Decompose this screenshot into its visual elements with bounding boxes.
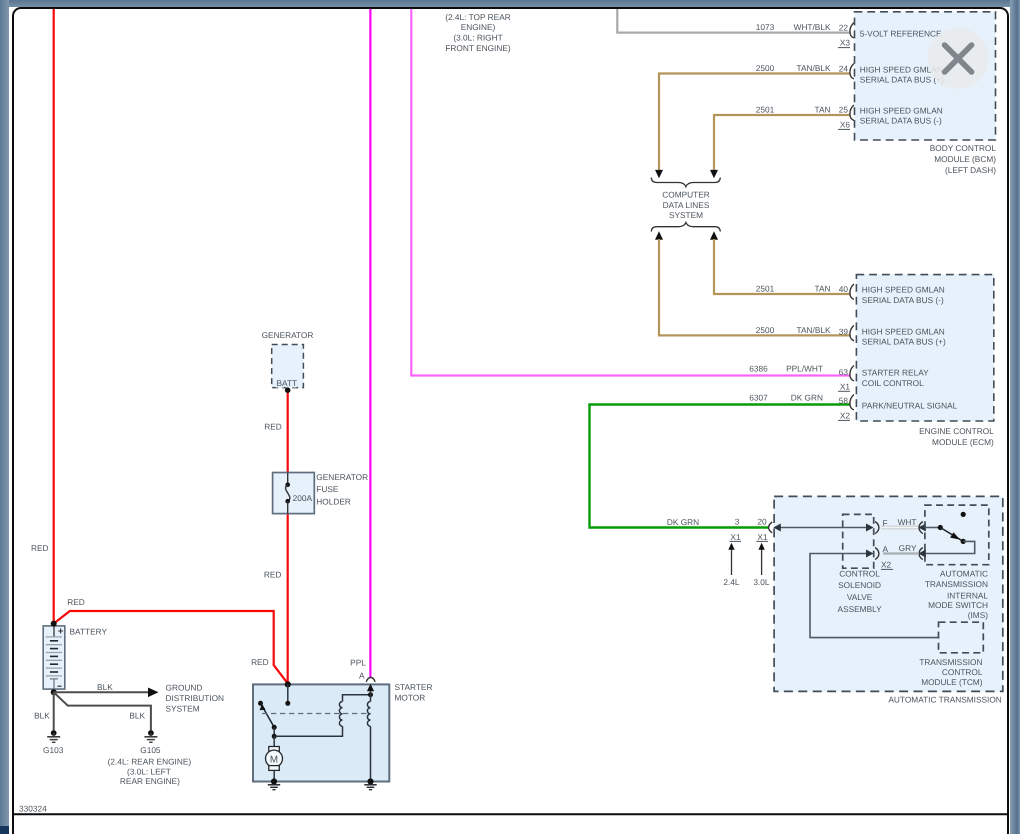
BCM pin labels	[860, 29, 944, 126]
svg-text:63: 63	[839, 367, 849, 377]
viewer chrome: left strip navy end	[0, 826, 9, 834]
svg-text:330324: 330324	[19, 804, 47, 814]
svg-text:CONTROL: CONTROL	[839, 568, 880, 578]
svg-text:CONTROL: CONTROL	[942, 667, 983, 677]
svg-text:24: 24	[839, 63, 849, 73]
battery box	[43, 626, 65, 689]
label CONTROL SOLENOID VALVE ASSEMBLY	[838, 568, 883, 613]
svg-text:TAN: TAN	[815, 283, 831, 293]
wire: junction to pull-in coil	[274, 726, 342, 736]
pin 63 terminal arc	[850, 366, 854, 381]
svg-text:PARK/NEUTRAL SIGNAL: PARK/NEUTRAL SIGNAL	[862, 401, 958, 411]
starter motor M: armature circle	[266, 750, 283, 767]
module CSVA: control solenoid valve assembly box	[843, 514, 874, 568]
svg-text:STARTER: STARTER	[395, 682, 433, 692]
wire: RED fuse holder to starter junction	[287, 513, 289, 683]
battery negative stem	[50, 679, 58, 689]
svg-text:ENGINE CONTROL: ENGINE CONTROL	[919, 426, 994, 436]
pin 39 terminal arc	[850, 325, 854, 340]
svg-text:HIGH SPEED GMLAN: HIGH SPEED GMLAN	[860, 105, 943, 115]
svg-text:X1: X1	[757, 532, 768, 542]
arrow at CSVA A pin (right pointing)	[866, 550, 874, 558]
svg-text:MODULE (BCM): MODULE (BCM)	[934, 154, 996, 164]
svg-text:SERIAL DATA BUS (-): SERIAL DATA BUS (-)	[862, 295, 944, 305]
svg-text:DISTRIBUTION: DISTRIBUTION	[166, 693, 225, 703]
battery plus sign	[58, 629, 63, 634]
svg-text:TAN/BLK: TAN/BLK	[797, 63, 831, 73]
svg-text:40: 40	[839, 284, 849, 294]
svg-text:2.4L: 2.4L	[723, 577, 740, 587]
label GROUND DISTRIBUTION SYSTEM	[166, 683, 225, 714]
wire: IMS switch feed	[925, 527, 940, 529]
arrow: 2501 into data-lines brace	[710, 170, 718, 178]
svg-text:FUSE: FUSE	[316, 484, 339, 494]
svg-text:COMPUTER: COMPUTER	[662, 190, 709, 200]
wire: TAN 2501 to ECM pin 40	[714, 239, 850, 294]
svg-text:BLK: BLK	[34, 711, 50, 721]
svg-text:TRANSMISSION: TRANSMISSION	[925, 579, 988, 589]
svg-text:MODULE (TCM): MODULE (TCM)	[921, 677, 983, 687]
svg-text:ASSEMBLY: ASSEMBLY	[838, 604, 883, 614]
starter solenoid switch contact	[258, 701, 263, 706]
arrow out of IMS (left pointing, A row)	[918, 550, 926, 558]
battery cell plates	[46, 637, 62, 676]
viewer chrome: left blue strip	[0, 0, 9, 826]
wire: gray lead into control solenoid valve assembly (F row)	[780, 527, 867, 529]
viewer chrome: right blue strip	[1010, 0, 1020, 834]
wire: PPL/WHT 6386 starter relay coil control	[411, 9, 850, 376]
IMS switch closed contact	[961, 539, 966, 544]
svg-text:MODE SWITCH: MODE SWITCH	[928, 600, 988, 610]
svg-text:BLK: BLK	[129, 711, 145, 721]
brace: computer data lines (lower)	[651, 223, 720, 232]
arrow: 2500 into data-lines brace	[655, 170, 663, 178]
label G105 and engine notes	[108, 745, 192, 786]
svg-text:PPL: PPL	[350, 658, 366, 668]
module ECM: engine control module box	[856, 275, 993, 421]
svg-text:RED: RED	[251, 657, 269, 667]
svg-text:(LEFT DASH): (LEFT DASH)	[945, 165, 996, 175]
svg-text:3: 3	[735, 517, 740, 527]
wire: GRY lead IMS to CSVA pin A	[883, 552, 919, 554]
IMS switch common contact	[938, 525, 943, 530]
IMS pin terminal arc (F row)	[919, 522, 923, 534]
ground G105	[144, 730, 157, 742]
svg-text:HIGH SPEED GMLAN: HIGH SPEED GMLAN	[862, 326, 945, 336]
svg-text:GROUND: GROUND	[166, 683, 203, 693]
svg-text:2500: 2500	[756, 325, 775, 335]
mechanical link (dashed)	[262, 713, 371, 715]
svg-text:VALVE: VALVE	[847, 592, 873, 602]
svg-text:58: 58	[839, 395, 849, 405]
svg-text:TRANSMISSION: TRANSMISSION	[919, 657, 982, 667]
pin 25 terminal arc	[850, 105, 854, 120]
svg-text:DATA LINES: DATA LINES	[663, 200, 710, 210]
svg-text:X3: X3	[840, 38, 851, 48]
IMS switch open contact	[961, 512, 966, 517]
svg-text:X6: X6	[840, 119, 851, 129]
svg-text:SYSTEM: SYSTEM	[166, 703, 200, 713]
wire: RED battery positive feed (left vertical)	[53, 9, 55, 624]
wire: WHT/BLK 1073 5-volt reference	[617, 9, 850, 33]
viewer chrome: top blue strip	[0, 0, 1020, 7]
svg-text:2501: 2501	[756, 283, 775, 293]
wire: PPL starter solenoid feed (magenta vertical)	[369, 9, 371, 678]
IMS switch arm	[940, 528, 963, 542]
svg-text:BATTERY: BATTERY	[70, 626, 108, 636]
pin 24 terminal arc	[850, 64, 854, 79]
svg-text:DK GRN: DK GRN	[791, 393, 823, 403]
arrow into connector (left pointing)	[773, 524, 781, 532]
label COMPUTER DATA LINES SYSTEM	[662, 190, 710, 220]
svg-text:WHT/BLK: WHT/BLK	[794, 22, 831, 32]
svg-text:39: 39	[839, 326, 849, 336]
module TCM: transmission control module box	[939, 622, 984, 653]
wire: BLK battery to G103	[53, 692, 55, 730]
svg-text:MODULE (ECM): MODULE (ECM)	[932, 437, 994, 447]
svg-text:BLK: BLK	[97, 682, 113, 692]
svg-text:WHT: WHT	[898, 517, 917, 527]
svg-text:HIGH SPEED GMLAN: HIGH SPEED GMLAN	[862, 285, 945, 295]
svg-text:MOTOR: MOTOR	[395, 692, 426, 702]
svg-text:(2.4L: REAR ENGINE): (2.4L: REAR ENGINE)	[108, 757, 192, 767]
IMS pin terminal arc (A row)	[919, 548, 923, 560]
wire: TAN/BLK 2500 to ECM pin 39	[659, 239, 850, 335]
label ENGINE CONTROL MODULE (ECM)	[919, 426, 994, 447]
svg-text:22: 22	[839, 23, 849, 33]
svg-text:X1: X1	[840, 381, 851, 391]
starter feed stub	[287, 684, 289, 703]
label STARTER MOTOR	[395, 682, 433, 703]
terminal arc at transmission connector	[769, 522, 773, 533]
svg-text:BATT: BATT	[277, 378, 298, 388]
arrow up at pin A	[367, 684, 374, 691]
svg-text:A: A	[359, 671, 365, 681]
svg-text:X2: X2	[881, 559, 892, 569]
arrow to X1 2.4L	[731, 550, 733, 576]
starter motor box	[253, 684, 389, 781]
node: battery negative junction	[51, 689, 57, 695]
svg-text:G103: G103	[43, 745, 64, 755]
svg-text:FRONT ENGINE): FRONT ENGINE)	[445, 43, 511, 53]
ground: starter motor internal (left)	[268, 778, 280, 789]
wire: RED battery to starter (horizontal run)	[54, 611, 288, 684]
svg-text:GENERATOR: GENERATOR	[262, 330, 314, 340]
svg-text:SOLENOID: SOLENOID	[838, 580, 881, 590]
svg-text:X1: X1	[730, 532, 741, 542]
ground G103	[47, 730, 60, 742]
svg-text:A: A	[883, 544, 889, 554]
label AUTOMATIC TRANSMISSION INTERNAL MODE SWITCH (IMS)	[925, 568, 989, 620]
svg-text:SYSTEM: SYSTEM	[669, 210, 703, 220]
svg-text:RED: RED	[67, 597, 85, 607]
svg-text:6386: 6386	[749, 364, 768, 374]
svg-text:AUTOMATIC TRANSMISSION: AUTOMATIC TRANSMISSION	[888, 694, 1001, 704]
svg-text:BODY CONTROL: BODY CONTROL	[930, 143, 997, 153]
svg-text:TAN/BLK: TAN/BLK	[797, 325, 831, 335]
wire: WHT lead CSVA to IMS	[881, 526, 919, 529]
svg-text:3.0L: 3.0L	[753, 577, 770, 587]
svg-text:ENGINE): ENGINE)	[461, 22, 496, 32]
svg-text:(IMS): (IMS)	[968, 610, 989, 620]
solenoid coil (left)	[339, 701, 342, 726]
module BCM: body control module box	[855, 12, 996, 140]
svg-text:20: 20	[757, 517, 767, 527]
pin 22 terminal arc	[850, 23, 854, 38]
svg-text:25: 25	[839, 105, 849, 115]
svg-text:AUTOMATIC: AUTOMATIC	[940, 568, 988, 578]
svg-text:GRY: GRY	[899, 543, 917, 553]
svg-text:RED: RED	[31, 543, 49, 553]
pin 40 terminal arc	[850, 284, 854, 299]
CSVA pin F terminal arc	[875, 522, 879, 534]
svg-text:DK GRN: DK GRN	[667, 517, 699, 527]
wire: pin A drop to coils	[370, 687, 372, 702]
wire: coil top link	[343, 695, 371, 702]
solenoid coil (right)	[367, 701, 370, 726]
svg-text:6307: 6307	[749, 393, 768, 403]
wire: BLK to ground distribution system	[54, 691, 149, 693]
arrow into IMS (left pointing)	[918, 524, 926, 532]
wire: right coil to ground	[370, 726, 372, 781]
wire: CSVA pin A to TCM	[810, 554, 939, 638]
node: battery positive junction	[51, 621, 57, 627]
svg-text:SERIAL DATA BUS (+): SERIAL DATA BUS (+)	[862, 337, 946, 347]
starter solenoid switch arm	[261, 703, 275, 727]
wire: switch to motor junction	[273, 727, 275, 736]
svg-text:2500: 2500	[756, 63, 775, 73]
ground: starter motor internal (right)	[364, 778, 376, 789]
CSVA pin A terminal arc	[875, 548, 879, 560]
svg-text:COIL CONTROL: COIL CONTROL	[862, 378, 924, 388]
close button	[928, 28, 989, 89]
battery minus sign	[58, 685, 62, 687]
svg-text:2501: 2501	[756, 104, 775, 114]
svg-text:TAN: TAN	[815, 104, 831, 114]
arrow at CSVA F pin (right pointing)	[866, 524, 874, 532]
wire: TAN 2501 serial data bus minus (to BCM pin 25)	[714, 115, 850, 171]
ECM pin labels	[862, 285, 958, 411]
label GENERATOR FUSE HOLDER	[316, 472, 368, 506]
arrow: brace to ECM 2500 wire	[655, 231, 663, 239]
svg-text:G105: G105	[140, 745, 161, 755]
node: generator output junction	[285, 387, 291, 393]
svg-text:(2.4L: TOP REAR: (2.4L: TOP REAR	[445, 12, 510, 22]
svg-text:X2: X2	[840, 410, 851, 420]
svg-text:PPL/WHT: PPL/WHT	[786, 364, 823, 374]
battery positive stem	[53, 626, 55, 637]
svg-text:(3.0L: RIGHT: (3.0L: RIGHT	[453, 33, 502, 43]
svg-text:M: M	[270, 754, 278, 765]
module IMS: internal mode switch box	[925, 505, 989, 565]
svg-text:RED: RED	[264, 421, 282, 431]
arrow to X1 3.0L	[761, 550, 763, 576]
generator box	[272, 345, 304, 388]
svg-text:REAR ENGINE): REAR ENGINE)	[120, 776, 180, 786]
starter motor M: top brush	[273, 736, 275, 746]
node: starter battery terminal junction	[285, 681, 291, 687]
generator fuse holder box	[273, 473, 315, 514]
svg-text:STARTER RELAY: STARTER RELAY	[862, 367, 929, 377]
fuse 200A element	[287, 473, 289, 485]
module: automatic transmission outer box	[774, 496, 1003, 691]
wire: IMS return path to GRY pin	[925, 541, 975, 553]
svg-text:SERIAL DATA BUS (+): SERIAL DATA BUS (+)	[860, 75, 944, 85]
wire: TAN/BLK 2500 serial data bus plus (to BCM pin 24)	[659, 74, 850, 171]
pin A terminal arc on starter	[366, 678, 375, 682]
wire: DK GRN 6307 park/neutral signal	[590, 405, 850, 528]
diagram bottom frame rule	[13, 813, 1009, 815]
svg-text:SERIAL DATA BUS (-): SERIAL DATA BUS (-)	[860, 116, 942, 126]
wire: BLK battery to G105	[54, 692, 151, 730]
arrow: brace to ECM 2501 wire	[710, 231, 718, 239]
brace: computer data lines (upper)	[651, 178, 720, 187]
pin 58 terminal arc	[850, 395, 854, 410]
svg-text:1073: 1073	[756, 22, 775, 32]
starter motor M: bottom brush	[269, 766, 280, 771]
svg-text:HOLDER: HOLDER	[316, 496, 351, 506]
svg-text:RED: RED	[264, 569, 282, 579]
label BODY CONTROL MODULE (BCM) (LEFT DASH)	[930, 143, 997, 175]
svg-text:5-VOLT REFERENCE: 5-VOLT REFERENCE	[860, 29, 942, 39]
label TRANSMISSION CONTROL MODULE (TCM)	[919, 657, 983, 687]
note: engine location note (2.4L/3.0L)	[445, 12, 511, 53]
svg-text:(3.0L: LEFT: (3.0L: LEFT	[127, 767, 171, 777]
wire: RED generator to fuse holder	[287, 390, 289, 473]
svg-text:200A: 200A	[293, 493, 313, 503]
svg-text:GENERATOR: GENERATOR	[316, 472, 368, 482]
